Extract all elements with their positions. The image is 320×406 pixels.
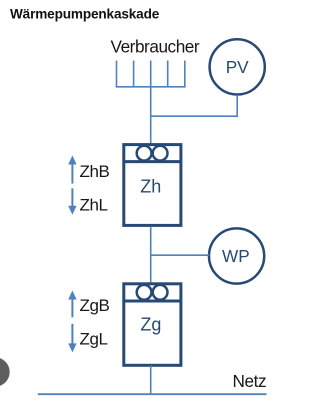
PV generator circle — [210, 39, 265, 94]
wire busbar to node A — [150, 87, 152, 145]
wire PV to node A — [151, 95, 238, 116]
arrow ZgB (up) — [68, 291, 76, 318]
svg-text:PV: PV — [226, 57, 249, 77]
svg-text:Verbraucher: Verbraucher — [111, 37, 200, 57]
svg-text:ZgL: ZgL — [80, 330, 108, 349]
svg-text:Zg: Zg — [140, 314, 161, 334]
arrow ZgL (down) — [68, 324, 76, 353]
meter Zh box — [124, 145, 181, 226]
svg-text:Wärmepumpenkaskade: Wärmepumpenkaskade — [10, 7, 160, 22]
consumer busbar (comb symbol) — [116, 61, 186, 87]
wire Zh to node B — [150, 227, 152, 284]
svg-text:ZhB: ZhB — [80, 162, 110, 181]
arrow ZhB (up) — [68, 156, 76, 184]
heat pump circle WP — [209, 228, 264, 283]
wire Zg to grid — [150, 365, 152, 394]
meter Zg box — [124, 284, 181, 366]
svg-text:Zh: Zh — [140, 176, 161, 196]
grid line (Netz bus) — [38, 393, 267, 395]
svg-text:ZgB: ZgB — [80, 296, 110, 315]
wire WP to node B — [151, 254, 209, 256]
gray overlay circle (screenshot artifact) — [0, 357, 10, 386]
svg-text:ZhL: ZhL — [80, 196, 108, 215]
svg-text:WP: WP — [222, 246, 250, 266]
svg-text:Netz: Netz — [233, 371, 267, 391]
arrow ZhL (down) — [68, 188, 76, 215]
